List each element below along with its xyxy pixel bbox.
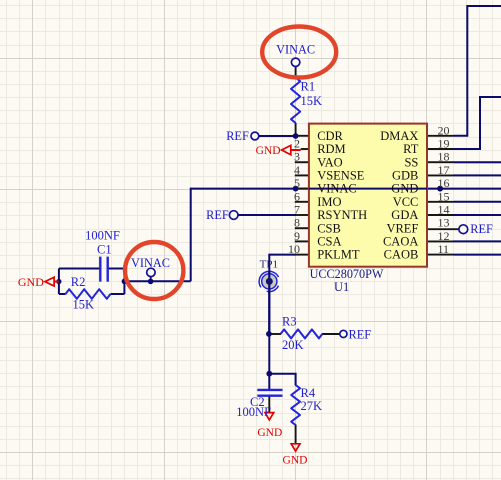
svg-text:GND: GND xyxy=(18,275,44,289)
svg-text:15: 15 xyxy=(438,189,450,203)
svg-text:RSYNTH: RSYNTH xyxy=(317,208,367,222)
svg-text:RT: RT xyxy=(403,142,419,156)
svg-text:GND: GND xyxy=(391,182,418,196)
svg-text:R4: R4 xyxy=(301,386,316,400)
svg-text:VSENSE: VSENSE xyxy=(317,169,365,183)
svg-text:GDA: GDA xyxy=(391,208,418,222)
svg-text:VAO: VAO xyxy=(317,155,342,169)
svg-text:GND: GND xyxy=(256,145,281,157)
svg-text:2: 2 xyxy=(294,137,300,151)
svg-text:100NF: 100NF xyxy=(236,405,271,419)
svg-text:14: 14 xyxy=(438,203,450,217)
svg-text:UCC28070PW: UCC28070PW xyxy=(310,267,384,281)
svg-text:GND: GND xyxy=(257,427,282,439)
svg-text:CDR: CDR xyxy=(317,129,343,143)
svg-text:5: 5 xyxy=(294,176,300,190)
svg-text:12: 12 xyxy=(438,229,450,243)
svg-text:20: 20 xyxy=(438,123,450,137)
svg-text:VINAC: VINAC xyxy=(317,182,357,196)
svg-text:REF: REF xyxy=(226,129,249,143)
svg-text:SS: SS xyxy=(404,155,418,169)
svg-text:19: 19 xyxy=(438,137,450,151)
svg-text:TP1: TP1 xyxy=(260,259,278,271)
svg-text:3: 3 xyxy=(294,150,300,164)
svg-text:VCC: VCC xyxy=(393,195,419,209)
svg-text:GND: GND xyxy=(283,454,308,466)
svg-text:U1: U1 xyxy=(334,280,349,294)
svg-text:R2: R2 xyxy=(71,275,86,289)
svg-text:16: 16 xyxy=(438,176,450,190)
svg-text:PKLMT: PKLMT xyxy=(317,248,360,262)
svg-text:CAOB: CAOB xyxy=(384,248,419,262)
svg-text:REF: REF xyxy=(349,327,372,341)
svg-text:VINAC: VINAC xyxy=(131,256,170,270)
svg-text:15K: 15K xyxy=(73,298,95,312)
svg-text:17: 17 xyxy=(438,163,450,177)
svg-text:VINAC: VINAC xyxy=(276,43,315,57)
svg-text:REF: REF xyxy=(470,222,493,236)
svg-text:R3: R3 xyxy=(282,315,297,329)
svg-text:CSA: CSA xyxy=(317,235,341,249)
svg-text:DMAX: DMAX xyxy=(380,129,418,143)
svg-text:REF: REF xyxy=(206,208,229,222)
svg-text:IMO: IMO xyxy=(317,195,341,209)
svg-text:6: 6 xyxy=(294,189,300,203)
svg-text:18: 18 xyxy=(438,150,450,164)
svg-text:11: 11 xyxy=(438,242,450,256)
svg-text:15K: 15K xyxy=(301,94,323,108)
svg-text:100NF: 100NF xyxy=(85,228,120,242)
svg-text:20K: 20K xyxy=(282,338,304,352)
svg-text:13: 13 xyxy=(438,216,450,230)
svg-text:4: 4 xyxy=(294,163,300,177)
svg-text:CSB: CSB xyxy=(317,221,341,235)
svg-text:C1: C1 xyxy=(97,243,112,257)
svg-text:R1: R1 xyxy=(301,80,316,94)
svg-text:8: 8 xyxy=(294,216,300,230)
svg-text:9: 9 xyxy=(294,229,300,243)
svg-text:27K: 27K xyxy=(301,399,323,413)
svg-text:7: 7 xyxy=(294,203,300,217)
svg-text:RDM: RDM xyxy=(317,142,345,156)
svg-text:CAOA: CAOA xyxy=(383,235,418,249)
svg-text:VREF: VREF xyxy=(386,221,418,235)
svg-text:GDB: GDB xyxy=(392,169,418,183)
svg-text:10: 10 xyxy=(288,242,300,256)
